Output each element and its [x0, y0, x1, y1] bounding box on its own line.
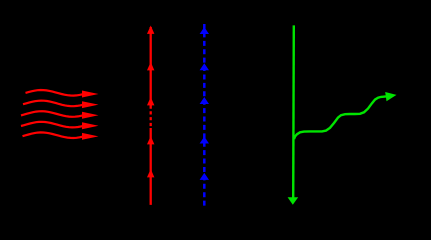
- red field-line arrowhead 4: [147, 136, 154, 144]
- wire red dotted field line (middle segment): [150, 106, 152, 129]
- wire blue dashed field line: [203, 24, 206, 206]
- wire red solid field line (upper segment): [150, 27, 152, 106]
- red field-line arrowhead 3: [147, 97, 154, 105]
- green downward arrowhead: [288, 197, 299, 204]
- wire red wavy incident-wave arrow 5: [23, 132, 99, 139]
- wire red solid field line (lower segment): [150, 128, 152, 205]
- blue field-line arrowhead 2: [200, 63, 209, 70]
- blue field-line arrowhead 4: [200, 137, 209, 144]
- blue field-line arrowhead 5: [200, 173, 209, 180]
- wire red wavy incident-wave arrow 2: [23, 101, 99, 109]
- green branch arrowhead: [385, 92, 396, 101]
- wire red wavy incident-wave arrow 4: [21, 122, 99, 129]
- wire red wavy incident-wave arrow 3: [21, 111, 99, 119]
- red field-line arrowhead 5: [147, 169, 154, 177]
- wire green wiggly branch curve: [294, 96, 386, 139]
- blue field-line arrowhead 1: [200, 27, 209, 34]
- wire green vertical line: [292, 25, 295, 198]
- blue field-line arrowhead 3: [200, 97, 209, 104]
- red field-line arrowhead 2: [147, 62, 154, 70]
- red field-line arrowhead 1: [147, 26, 154, 34]
- wire red wavy incident-wave arrow 1: [26, 90, 99, 98]
